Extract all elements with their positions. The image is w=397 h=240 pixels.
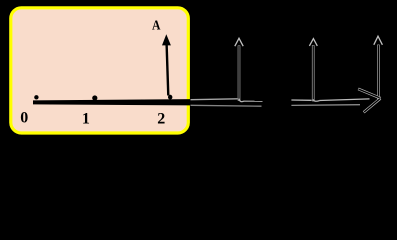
node dot at 0 bbox=[34, 95, 38, 99]
svg-text:1: 1 bbox=[82, 111, 90, 128]
axis segment B bottom edge bbox=[291, 104, 360, 107]
svg-text:2: 2 bbox=[157, 111, 165, 128]
impulse arrow at 3 (black core) bbox=[238, 46, 240, 100]
axis segment A top edge (before impulse 3) bbox=[191, 98, 238, 101]
axis segment A top edge (after impulse 3) bbox=[244, 100, 263, 102]
impulse arrow at 4 (halo) bbox=[312, 45, 315, 101]
node dot at 2 (base of impulse arrow) bbox=[168, 95, 172, 100]
impulse arrow at 2 (shaft) bbox=[167, 44, 169, 96]
axis end arrowhead upper stroke (core) bbox=[359, 89, 381, 98]
impulse arrow at 4 (base hook) bbox=[313, 99, 319, 101]
impulse arrow at 5 (halo) bbox=[377, 45, 380, 99]
axis segment B top edge (before impulse 4) bbox=[291, 99, 311, 101]
impulse arrow at 5 (head) bbox=[374, 36, 383, 45]
axis end arrowhead lower stroke (halo) bbox=[364, 98, 381, 112]
impulse arrow at 3 (head) bbox=[235, 38, 243, 46]
impulse arrow at 4 (black core) bbox=[312, 46, 314, 101]
svg-text:A: A bbox=[152, 19, 161, 34]
highlight box (yellow rounded border, peach fill) bbox=[11, 8, 189, 133]
impulse arrow at 5 (black core) bbox=[377, 45, 379, 98]
impulse arrow at 3 (base hook) bbox=[239, 99, 244, 102]
axis end arrowhead upper stroke (halo) bbox=[358, 89, 380, 98]
impulse arrow at 4 (head) bbox=[309, 39, 317, 46]
axis end arrowhead lower stroke (core) bbox=[364, 99, 380, 112]
axis segment B top edge (after impulse 4) bbox=[319, 99, 369, 101]
node dot at 1 bbox=[92, 95, 97, 100]
number line (thick axis segment 0..2, crosses border) bbox=[33, 99, 191, 105]
impulse arrow at 3 (halo) bbox=[238, 46, 241, 101]
svg-text:0: 0 bbox=[20, 110, 28, 127]
axis segment A bottom edge bbox=[191, 104, 262, 107]
impulse arrow at 5 (base hook) bbox=[375, 97, 379, 103]
impulse arrow at 2 (solid head) bbox=[162, 34, 171, 45]
